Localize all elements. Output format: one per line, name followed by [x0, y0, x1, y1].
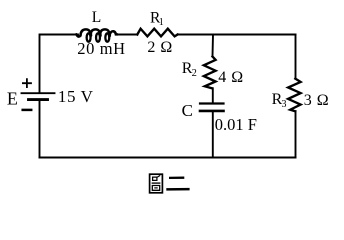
svg-text:L: L [92, 9, 101, 26]
middle branch wire from node A down to R2 [212, 35, 215, 57]
battery minus sign [23, 109, 32, 112]
wire between L and R1 [117, 34, 137, 36]
right wire from R3 to bottom-right corner [295, 111, 297, 157]
left wire from top-left corner down to battery [39, 35, 41, 93]
battery E bottom plate (-) [29, 98, 48, 101]
svg-text:0.01 F: 0.01 F [215, 115, 257, 134]
wire capacitor to bottom wire [212, 112, 214, 157]
battery plus sign [23, 79, 31, 87]
battery E top plate (+) [22, 92, 55, 94]
capacitor C top plate [200, 102, 224, 104]
svg-text:2 Ω: 2 Ω [147, 39, 172, 56]
bottom wire right segment [213, 157, 296, 159]
capacitor C bottom plate [200, 110, 224, 113]
right wire from top-right corner to R3 [295, 35, 297, 79]
svg-text:E: E [7, 89, 18, 109]
caption figure-two character ER [166, 178, 189, 190]
resistor R2 zigzag [204, 57, 216, 89]
caption figure-two character TU [150, 174, 163, 193]
wire R2 to capacitor C [212, 88, 214, 102]
wire below battery to bottom-left corner [39, 101, 41, 158]
wire node A to top-right corner [213, 34, 296, 36]
svg-text:15 V: 15 V [58, 87, 94, 106]
resistor R3 zigzag [288, 79, 301, 112]
svg-text:3 Ω: 3 Ω [304, 92, 329, 109]
bottom wire left segment [40, 157, 214, 159]
svg-text:4 Ω: 4 Ω [218, 69, 243, 86]
inductor L coil [76, 29, 117, 36]
svg-text:20 mH: 20 mH [77, 39, 125, 58]
resistor R1 zigzag [137, 29, 177, 37]
wire R1 to node A [178, 34, 213, 36]
wire top-left segment [40, 34, 78, 36]
svg-text:C: C [182, 101, 193, 120]
